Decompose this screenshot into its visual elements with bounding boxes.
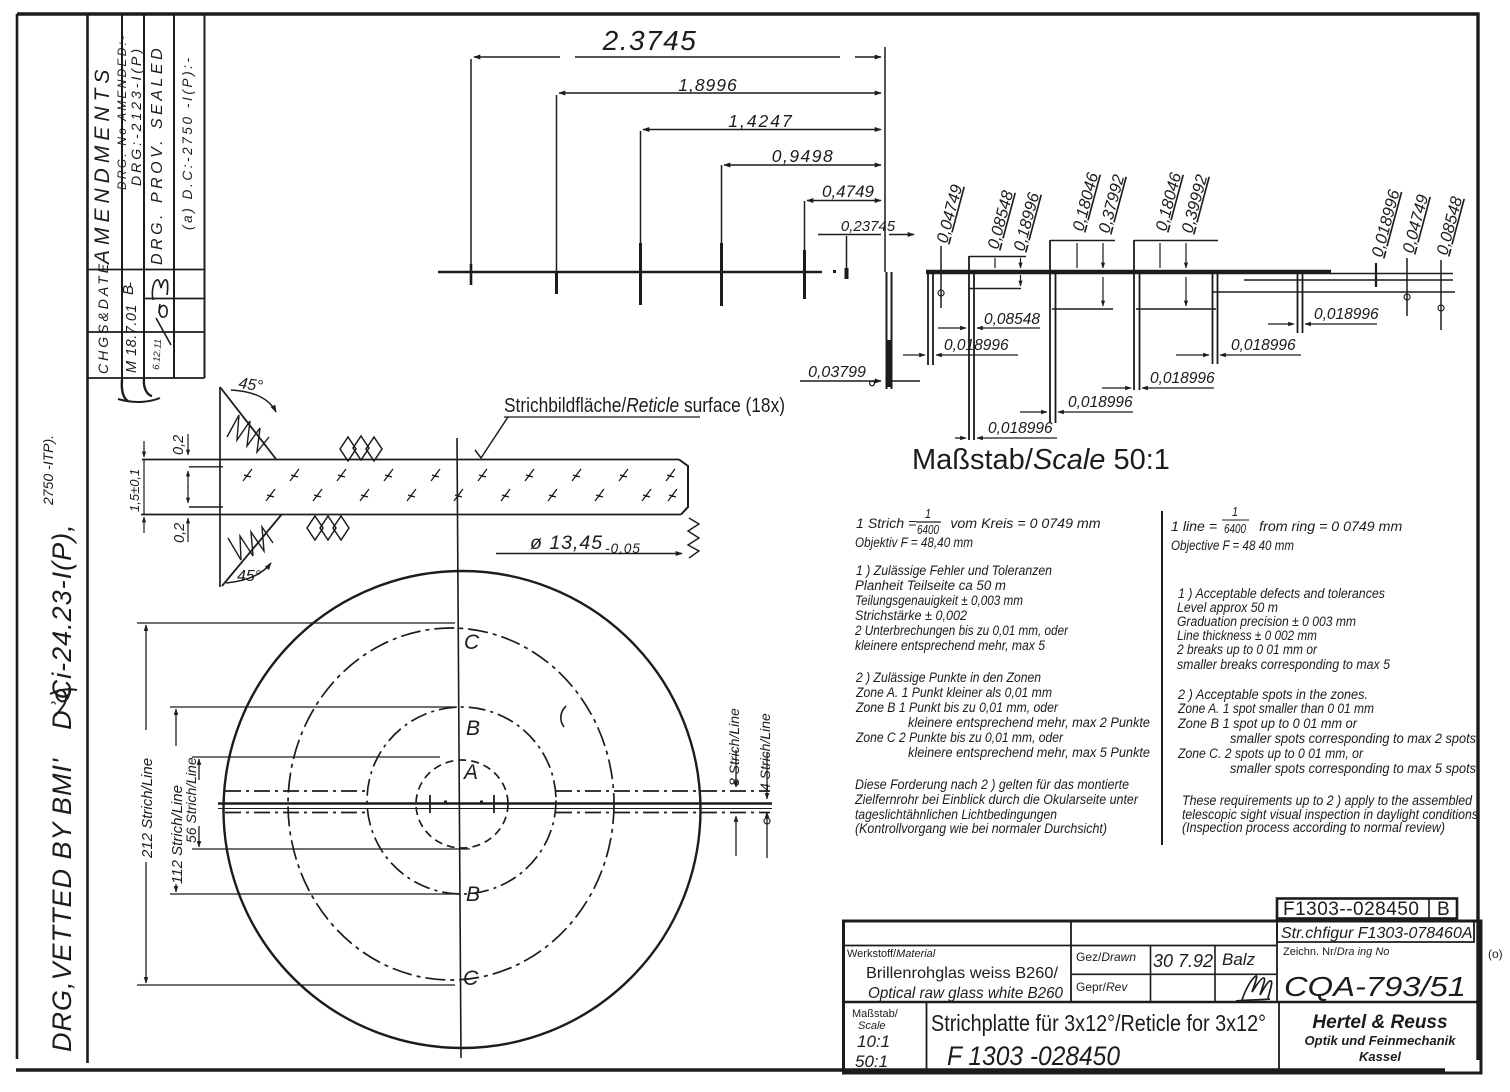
svg-text:1,4247: 1,4247 [728, 111, 794, 131]
right end dim tick x1441 [1440, 260, 1442, 330]
below dim 0,018996 p1 deep [955, 437, 1057, 439]
post pair x1212 [1213, 272, 1218, 364]
svg-text:2 breaks up to 0 01 mm or: 2 breaks up to 0 01 mm or [1176, 642, 1318, 658]
svg-text:10:1: 10:1 [857, 1032, 890, 1051]
vertical: material | gez [1070, 921, 1072, 1002]
vertical: massstab | title [926, 1002, 928, 1073]
main reference line x885 [884, 47, 886, 272]
svg-text:AMENDMENTS: AMENDMENTS [91, 65, 114, 266]
svg-text:6.12.11: 6.12.11 [151, 339, 164, 371]
svg-text:Gez/Drawn: Gez/Drawn [1076, 950, 1136, 964]
svg-text:2.3745: 2.3745 [602, 25, 698, 56]
svg-text:Hertel & Reuss: Hertel & Reuss [1312, 1012, 1447, 1033]
tick extension line x721 [721, 165, 723, 243]
center graduation dots [444, 801, 483, 804]
svg-text:1,5±0,1: 1,5±0,1 [127, 469, 142, 512]
svg-text:B: B [466, 883, 480, 906]
extension line C top [137, 622, 455, 624]
svg-text:0,018996: 0,018996 [1150, 370, 1215, 387]
svg-text:1 ) Zulässige Fehler und Toler: 1 ) Zulässige Fehler und Toleranzen [856, 563, 1052, 579]
bracket above group1 [969, 256, 1026, 258]
tick extension line x471 [470, 59, 472, 285]
handwritten scrawl below table [122, 378, 152, 401]
dim line 2.3745 [474, 56, 881, 58]
svg-text:Gepr/Rev: Gepr/Rev [1076, 980, 1128, 994]
dim line 1.8996 [559, 92, 881, 94]
cross tick x641 [639, 243, 642, 305]
post pair x1050 [1050, 240, 1056, 423]
svg-text:1: 1 [925, 507, 931, 521]
svg-text:Kassel: Kassel [1359, 1049, 1401, 1064]
svg-text:Optik und Feinmechanik: Optik und Feinmechanik [1305, 1033, 1457, 1048]
TITLEBLOCK [844, 899, 1503, 1074]
svg-text:Zielfernrohr bei Einblick durc: Zielfernrohr bei Einblick durch die Okul… [854, 792, 1139, 808]
svg-text:DRG,VETTED BY BMIʹ DʾCi-24.23-: DRG,VETTED BY BMIʹ DʾCi-24.23-I(P), [47, 523, 77, 1052]
svg-text:smaller breaks corresponding t: smaller breaks corresponding to max 5 [1177, 657, 1390, 673]
vertical center axis [457, 438, 461, 1058]
svg-text:C: C [463, 967, 479, 990]
dim line 0.9498 [724, 164, 881, 166]
cross tick x807 [803, 250, 806, 299]
svg-text:A: A [462, 761, 478, 784]
svg-text:Zone B 1 spot up to 0 01 mm: Zone B 1 spot up to 0 01 mm or [1177, 716, 1358, 732]
tick extension line x804 [804, 201, 806, 250]
svg-text:kleinere entsprechend mehr, ma: kleinere entsprechend mehr, max 5 Punkte [908, 745, 1150, 761]
extension line A bottom [192, 848, 470, 850]
svg-text:CQA-793/51: CQA-793/51 [1284, 971, 1466, 1002]
svg-text:1: 1 [1232, 505, 1238, 519]
svg-text:45°: 45° [237, 375, 264, 395]
dim line 4 strich [766, 752, 768, 799]
small tick x846 [845, 268, 849, 279]
tick extension line x556 [556, 95, 558, 294]
svg-text:DRG. No AMENDED:-: DRG. No AMENDED:- [115, 34, 129, 190]
svg-text:Zone A. 1 Punkt kleiner als 0,: Zone A. 1 Punkt kleiner als 0,01 mm [855, 685, 1052, 701]
dim line 8 strich [735, 750, 737, 787]
heavy post bottom edge dash-dot [225, 812, 770, 814]
svg-text:Scale: Scale [858, 1020, 886, 1032]
svg-text:0,9498: 0,9498 [772, 146, 835, 166]
svg-text:B: B [1437, 899, 1450, 920]
below dim 0,018996 p3 [1020, 411, 1133, 413]
signature flourish on vetted note [50, 688, 77, 716]
svg-text:Zeichn. Nr/Dra ing No: Zeichn. Nr/Dra ing No [1283, 946, 1389, 958]
svg-text:CHGS&DATE: CHGS&DATE [95, 261, 111, 374]
crosshair thin lower line [218, 808, 772, 810]
GLASS [127, 375, 785, 587]
post pair x928 [928, 271, 933, 365]
dim line 56 [198, 759, 200, 780]
bottom bevel hypotenuse [222, 514, 282, 586]
svg-text:Teilungsgenauigkeit ± 0,003 mm: Teilungsgenauigkeit ± 0,003 mm [855, 593, 1023, 609]
column divider line [1161, 511, 1163, 845]
dim line 0.4749 [807, 200, 881, 202]
below-bar ref line group1 [969, 288, 1021, 290]
0,2 reference line top [189, 466, 223, 468]
below-bar ref line group3 [1136, 308, 1216, 310]
svg-text:0,018996: 0,018996 [1231, 337, 1296, 354]
extension line C bottom [137, 984, 455, 986]
svg-text:Optical raw glass white B260: Optical raw glass white B260 [868, 985, 1063, 1002]
small tick x1376 [1375, 263, 1377, 287]
zone circle B dash-dot [367, 707, 556, 894]
svg-text:6400: 6400 [1224, 522, 1246, 536]
svg-text:1,8996: 1,8996 [678, 75, 738, 95]
svg-text:50:1: 50:1 [855, 1052, 888, 1071]
reticle scale bar 50:1 left part [438, 271, 822, 274]
heavy post top edge dash-dot [225, 790, 770, 792]
svg-text:0,018996: 0,018996 [1068, 394, 1133, 411]
svg-text:56 Strich/Line: 56 Strich/Line [183, 757, 199, 843]
45 deg arc bottom [226, 563, 271, 583]
svg-text:(Kontrollvorgang wie bei norma: (Kontrollvorgang wie bei normaler Durchs… [855, 821, 1107, 837]
svg-text:0,4749: 0,4749 [822, 182, 875, 201]
left small dim tick x941 [940, 246, 942, 308]
svg-text:Planheit Teilseite ca 50 m: Planheit Teilseite ca 50 m [855, 578, 1006, 594]
svg-text:smaller spots corresponding to: smaller spots corresponding to max 2 spo… [1230, 731, 1476, 747]
extension line A top [192, 756, 440, 758]
reticle thick bar 50:1 [926, 270, 1331, 274]
outer circle [224, 571, 701, 1048]
label underline [504, 416, 700, 418]
svg-text:(o): (o) [1488, 947, 1503, 961]
vertical: title | firm [1278, 1002, 1280, 1073]
vertical: name | zeichn [1276, 921, 1278, 1002]
diameter dim line [496, 553, 682, 555]
post pair x1297 [1298, 272, 1303, 333]
1,5 dim line [143, 441, 145, 457]
svg-text:0,23745: 0,23745 [841, 218, 896, 235]
title block outer frame [844, 921, 1482, 1073]
TEXTCOLS [854, 505, 1478, 845]
below dim 0,018996 p4 [1102, 387, 1214, 389]
dim line 212 [145, 625, 147, 730]
dot on bar [833, 270, 836, 273]
RIGHTBAR [887, 170, 1467, 476]
svg-text:F 1303 -028450: F 1303 -028450 [947, 1041, 1120, 1071]
top bevel hypotenuse [220, 387, 276, 459]
right end dim tick x1407 [1406, 258, 1408, 316]
CIRCLE [137, 438, 773, 1058]
crosshair main horizontal line [218, 802, 772, 805]
svg-text:Zone C 2 Punkte bis zu 0,01 m: Zone C 2 Punkte bis zu 0,01 mm, oder [855, 730, 1064, 746]
svg-text:0,2: 0,2 [171, 435, 187, 455]
dim line 0.03799 [800, 380, 881, 382]
svg-text:Maßstab/: Maßstab/ [852, 1008, 899, 1020]
bracket above group2 [1050, 240, 1115, 242]
0,2 dim arrows top [187, 434, 189, 455]
extension line B bottom [170, 893, 460, 895]
TOPDIM [438, 25, 920, 386]
amendments strip divider (full height) [86, 14, 89, 1063]
svg-text:1 Strich =vom Kreis = 0 0749 m: 1 Strich =vom Kreis = 0 0749 mm [856, 516, 1101, 532]
0,2 dim arrows bottom [187, 486, 189, 503]
svg-text:kleinere entsprechend mehr, ma: kleinere entsprechend mehr, max 5 [855, 638, 1045, 654]
extension line B top [170, 706, 457, 708]
svg-text:212 Strich/Line: 212 Strich/Line [139, 758, 156, 859]
svg-text:Zone B 1 Punkt bis zu 0,01 mm: Zone B 1 Punkt bis zu 0,01 mm, oder [855, 700, 1059, 716]
vertical: date | name [1214, 946, 1216, 1003]
svg-text:2 Unterbrechungen bis zu 0,01: 2 Unterbrechungen bis zu 0,01 mm, oder [854, 623, 1069, 639]
signature W scribble [152, 280, 171, 345]
svg-text:Brillenrohglas weiss B260/: Brillenrohglas weiss B260/ [866, 965, 1059, 982]
svg-text:8 Strich/Line: 8 Strich/Line [726, 708, 742, 786]
gepr signature scribble [1236, 976, 1272, 1001]
glass interior hatch marks [243, 469, 677, 501]
svg-text:Werkstoff/Material: Werkstoff/Material [847, 948, 936, 960]
svg-text:0,03799: 0,03799 [808, 364, 866, 381]
center graduation ticks [430, 795, 494, 813]
svg-text:45°: 45° [237, 568, 262, 585]
svg-text:0,2: 0,2 [172, 523, 188, 543]
below dim 0,018996 p5 [1176, 354, 1301, 356]
below-bar ref line group2 [1052, 308, 1113, 310]
below dim 0,018996 p6 [1268, 323, 1377, 325]
post pair x969 [969, 256, 974, 440]
cross tick x471 [470, 264, 473, 285]
amendments table verticals [122, 15, 205, 382]
svg-text:smaller spots corresponding to: smaller spots corresponding to max 5 spo… [1230, 761, 1476, 777]
bottom bevel zigzag grinding [228, 527, 273, 560]
plate top face [142, 459, 679, 461]
row line under top strip [844, 945, 1278, 947]
svg-text:1 line =from ring = 0 0749 mm: 1 line =from ring = 0 0749 mm [1171, 519, 1402, 535]
svg-text:2750 -ITP).: 2750 -ITP). [40, 435, 56, 506]
bottom border line [16, 1068, 1445, 1072]
45 deg arc top [231, 390, 276, 412]
diamond cluster bottom [307, 516, 349, 540]
dim line 0.23745 [818, 234, 914, 236]
reticle thin double bar right [1244, 274, 1453, 281]
svg-text:DRG:-2123-I(P): DRG:-2123-I(P) [128, 46, 144, 186]
below dim 0,018996 p2 [903, 354, 1018, 356]
svg-text:4 Strich/Line: 4 Strich/Line [757, 713, 773, 791]
svg-text:DRG. PROV. SEALED: DRG. PROV. SEALED [149, 45, 166, 265]
plate bottom face [141, 514, 681, 516]
plate right chamfered end [679, 460, 688, 515]
svg-text:Objective F = 48 40 mm: Objective F = 48 40 mm [1171, 538, 1294, 554]
svg-text:0,018996: 0,018996 [944, 337, 1009, 354]
cross tick x557 [555, 272, 558, 294]
vertical: gez label | date [1150, 946, 1152, 1003]
below dim 0,08548 [938, 327, 1040, 329]
stray curl mark [561, 706, 566, 727]
mid horizontal divider [844, 1001, 1482, 1003]
amendments table rows [88, 270, 205, 379]
post pair x1134 [1134, 240, 1140, 390]
dim line 1.4247 [643, 129, 881, 131]
right end zigzag grinding [688, 518, 699, 558]
step reference line right [1213, 291, 1455, 293]
svg-text:Balz: Balz [1222, 950, 1256, 969]
svg-text:Maßstab/Scale 50:1: Maßstab/Scale 50:1 [912, 444, 1170, 476]
tick extension line x640 [640, 131, 642, 243]
svg-text:B: B [466, 717, 480, 740]
svg-text:Strichplatte für 3x12°/Reticle: Strichplatte für 3x12°/Reticle for 3x12° [931, 1010, 1266, 1036]
svg-text:Str.chfigur F1303-078460A: Str.chfigur F1303-078460A [1281, 925, 1473, 942]
svg-text:kleinere entsprechend mehr, ma: kleinere entsprechend mehr, max 2 Punkte [908, 715, 1150, 731]
bracket above group3 [1134, 240, 1218, 242]
leader line to reticle surface [475, 417, 508, 458]
strichfigur row box [1277, 921, 1474, 942]
svg-text:2 ) Zulässige Punkte in den Zo: 2 ) Zulässige Punkte in den Zonen [855, 670, 1041, 686]
zone circle A dashed [416, 760, 508, 848]
svg-text:C: C [464, 631, 480, 654]
left rim vertical edge [219, 387, 221, 587]
0,2 reference line bottom [189, 506, 223, 508]
zone circle C dash-dot [288, 628, 614, 980]
svg-text:Objektiv F = 48,40 mm: Objektiv F = 48,40 mm [855, 535, 973, 551]
svg-text:0,08548: 0,08548 [984, 311, 1040, 328]
svg-text:Diese Forderung nach 2 ) gelte: Diese Forderung nach 2 ) gelten für das … [855, 777, 1129, 793]
dim line 112 [175, 709, 177, 746]
cross tick x723 [720, 243, 723, 306]
svg-text:Strichstärke ± 0,002: Strichstärke ± 0,002 [855, 608, 967, 624]
svg-text:Zone C. 2 spots up to 0 01 mm,: Zone C. 2 spots up to 0 01 mm, or [1177, 746, 1364, 762]
svg-text:(a) D.C:-2750 -I(P):-: (a) D.C:-2750 -I(P):- [180, 55, 195, 230]
main double post x886 [887, 272, 892, 389]
svg-text:0,018996: 0,018996 [1314, 306, 1379, 323]
svg-text:(Inspection process according: (Inspection process according to normal … [1182, 820, 1445, 836]
gez/gepr row divider [1071, 973, 1277, 975]
diamond cluster top [340, 436, 382, 461]
tick extension line x846 [846, 236, 848, 270]
svg-text:M 18.7.01: M 18.7.01 [124, 304, 140, 373]
LEFT-MARGIN [40, 14, 205, 1063]
svg-text:30 7.92: 30 7.92 [1153, 951, 1213, 971]
svg-text:F1303--028450: F1303--028450 [1283, 899, 1419, 920]
svg-text:Strichbildfläche/Reticle surfa: Strichbildfläche/Reticle surface (18x) [504, 395, 785, 417]
top bevel zigzag grinding [227, 415, 269, 452]
svg-text:Zone A. 1 spot smaller than 0: Zone A. 1 spot smaller than 0 01 mm [1177, 701, 1374, 717]
svg-text:0,018996: 0,018996 [988, 420, 1053, 437]
drawing number stamp box [1277, 899, 1457, 919]
